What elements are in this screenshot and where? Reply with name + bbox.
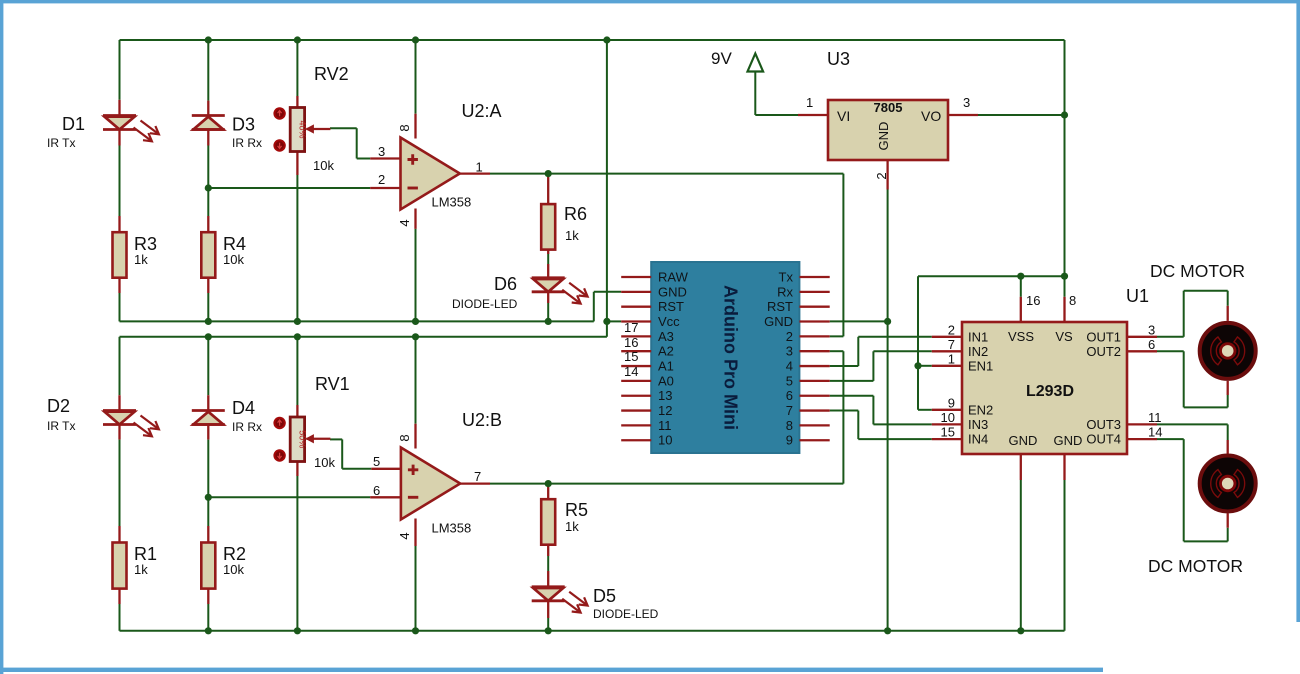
- svg-text:A3: A3: [658, 329, 674, 344]
- svg-text:9: 9: [786, 433, 793, 448]
- svg-text:D2: D2: [47, 396, 70, 416]
- svg-text:U2:A: U2:A: [462, 101, 502, 121]
- svg-text:11: 11: [658, 418, 672, 433]
- svg-text:1k: 1k: [134, 252, 148, 267]
- svg-text:1k: 1k: [565, 228, 579, 243]
- svg-text:10k: 10k: [223, 252, 244, 267]
- svg-text:Vcc: Vcc: [658, 314, 680, 329]
- svg-text:14: 14: [624, 364, 638, 379]
- svg-text:IR Rx: IR Rx: [232, 136, 262, 150]
- svg-text:12: 12: [658, 403, 672, 418]
- svg-text:IR Tx: IR Tx: [47, 136, 75, 150]
- svg-text:3: 3: [378, 144, 385, 159]
- svg-text:IR Rx: IR Rx: [232, 420, 262, 434]
- svg-text:7: 7: [786, 403, 793, 418]
- svg-text:EN1: EN1: [968, 358, 993, 373]
- svg-text:GND: GND: [1054, 433, 1083, 448]
- svg-text:R1: R1: [134, 544, 157, 564]
- svg-text:R2: R2: [223, 544, 246, 564]
- svg-text:RST: RST: [767, 299, 793, 314]
- svg-text:40%: 40%: [297, 120, 307, 138]
- svg-text:GND: GND: [658, 284, 687, 299]
- svg-text:2: 2: [948, 322, 955, 337]
- svg-text:15: 15: [624, 349, 638, 364]
- svg-text:OUT2: OUT2: [1086, 344, 1121, 359]
- svg-text:RAW: RAW: [658, 270, 689, 285]
- svg-text:14: 14: [1148, 425, 1162, 440]
- svg-text:4: 4: [786, 359, 793, 374]
- svg-text:10: 10: [658, 433, 672, 448]
- svg-text:11: 11: [1148, 410, 1162, 425]
- svg-text:RV1: RV1: [315, 374, 350, 394]
- svg-text:Arduino Pro Mini: Arduino Pro Mini: [721, 285, 741, 430]
- svg-text:R4: R4: [223, 234, 246, 254]
- svg-text:10k: 10k: [223, 562, 244, 577]
- svg-text:4: 4: [397, 219, 412, 226]
- svg-text:5: 5: [786, 373, 793, 388]
- svg-text:6: 6: [373, 483, 380, 498]
- svg-text:2: 2: [874, 172, 889, 179]
- svg-text:L293D: L293D: [1026, 383, 1074, 400]
- svg-text:Rx: Rx: [777, 284, 793, 299]
- svg-text:2: 2: [786, 329, 793, 344]
- svg-text:1k: 1k: [134, 562, 148, 577]
- svg-text:7: 7: [948, 337, 955, 352]
- svg-text:R6: R6: [564, 204, 587, 224]
- svg-text:Tx: Tx: [779, 270, 794, 285]
- svg-text:7: 7: [474, 469, 481, 484]
- svg-text:2: 2: [378, 172, 385, 187]
- svg-text:DIODE-LED: DIODE-LED: [452, 297, 518, 311]
- svg-text:3: 3: [1148, 322, 1155, 337]
- svg-text:GND: GND: [876, 122, 891, 151]
- svg-text:D4: D4: [232, 398, 255, 418]
- svg-text:A1: A1: [658, 359, 674, 374]
- svg-text:OUT1: OUT1: [1086, 329, 1121, 344]
- svg-text:IN4: IN4: [968, 432, 988, 447]
- svg-text:A2: A2: [658, 344, 674, 359]
- svg-text:6: 6: [1148, 337, 1155, 352]
- svg-text:4: 4: [397, 532, 412, 539]
- svg-text:EN2: EN2: [968, 402, 993, 417]
- svg-text:10: 10: [941, 410, 955, 425]
- svg-text:DC MOTOR: DC MOTOR: [1148, 556, 1243, 576]
- svg-text:10k: 10k: [314, 455, 335, 470]
- svg-text:15: 15: [941, 425, 955, 440]
- svg-text:1k: 1k: [565, 519, 579, 534]
- svg-text:GND: GND: [1009, 433, 1038, 448]
- svg-text:VO: VO: [921, 108, 941, 124]
- svg-text:D1: D1: [62, 114, 85, 134]
- svg-text:IN1: IN1: [968, 329, 988, 344]
- svg-text:VS: VS: [1055, 329, 1073, 344]
- svg-text:U1: U1: [1126, 286, 1149, 306]
- svg-text:10k: 10k: [313, 158, 334, 173]
- svg-text:50%: 50%: [297, 430, 307, 448]
- svg-text:7805: 7805: [874, 100, 903, 115]
- svg-text:6: 6: [786, 388, 793, 403]
- svg-text:DIODE-LED: DIODE-LED: [593, 607, 659, 621]
- svg-text:3: 3: [786, 344, 793, 359]
- svg-text:U3: U3: [827, 49, 850, 69]
- svg-text:16: 16: [624, 335, 638, 350]
- svg-text:IN3: IN3: [968, 417, 988, 432]
- svg-text:5: 5: [373, 454, 380, 469]
- svg-text:16: 16: [1026, 293, 1040, 308]
- svg-text:OUT4: OUT4: [1086, 432, 1121, 447]
- svg-text:1: 1: [948, 351, 955, 366]
- svg-text:8: 8: [397, 124, 412, 131]
- svg-text:RST: RST: [658, 299, 684, 314]
- svg-text:LM358: LM358: [432, 521, 472, 536]
- svg-text:U2:B: U2:B: [462, 410, 502, 430]
- svg-text:VI: VI: [837, 108, 850, 124]
- svg-text:9: 9: [948, 395, 955, 410]
- svg-text:IR Tx: IR Tx: [47, 419, 75, 433]
- svg-text:8: 8: [1069, 293, 1076, 308]
- svg-text:1: 1: [806, 95, 813, 110]
- svg-text:VSS: VSS: [1008, 329, 1034, 344]
- svg-text:R3: R3: [134, 234, 157, 254]
- svg-text:GND: GND: [764, 314, 793, 329]
- svg-text:8: 8: [397, 434, 412, 441]
- svg-text:DC MOTOR: DC MOTOR: [1150, 261, 1245, 281]
- svg-text:LM358: LM358: [432, 195, 472, 210]
- svg-text:A0: A0: [658, 373, 674, 388]
- svg-text:RV2: RV2: [314, 64, 349, 84]
- svg-text:13: 13: [658, 388, 672, 403]
- svg-text:D5: D5: [593, 586, 616, 606]
- svg-text:9V: 9V: [711, 49, 732, 68]
- svg-text:1: 1: [476, 160, 483, 175]
- svg-text:8: 8: [786, 418, 793, 433]
- svg-text:3: 3: [963, 95, 970, 110]
- svg-text:D6: D6: [494, 274, 517, 294]
- svg-text:IN2: IN2: [968, 344, 988, 359]
- svg-text:R5: R5: [565, 500, 588, 520]
- svg-text:D3: D3: [232, 115, 255, 135]
- svg-text:OUT3: OUT3: [1086, 417, 1121, 432]
- svg-text:17: 17: [624, 320, 638, 335]
